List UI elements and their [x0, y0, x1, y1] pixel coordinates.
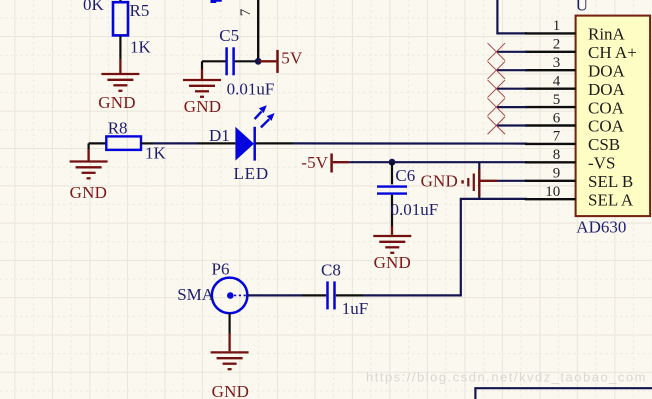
svg-text:-VS: -VS: [588, 154, 615, 173]
svg-text:C8: C8: [321, 261, 341, 280]
svg-text:GND: GND: [184, 97, 221, 116]
connector P6 SMA: [212, 278, 248, 314]
svg-text:SEL A: SEL A: [588, 190, 634, 209]
wire R8 to LED: [153, 142, 198, 144]
svg-text:GND: GND: [212, 382, 249, 399]
svg-text:U: U: [576, 0, 588, 15]
capacitor C5: [202, 47, 256, 75]
svg-text:AD630: AD630: [576, 218, 626, 237]
svg-text:4: 4: [553, 74, 561, 90]
ground symbol at IC pin 9 (rotated): [463, 169, 498, 197]
junction node at C6: [389, 159, 396, 166]
pin 6 COA: [525, 110, 625, 135]
pin 8 -VS: [525, 147, 615, 172]
svg-text:-5V: -5V: [301, 153, 329, 172]
ground symbol at R5: [101, 59, 139, 91]
IC U (AD630) body: [576, 16, 651, 217]
svg-text:7: 7: [238, 8, 254, 16]
svg-text:GND: GND: [421, 171, 458, 190]
LED D1: [198, 105, 293, 160]
wire stub pin 6: [497, 124, 527, 126]
svg-text:10: 10: [545, 184, 560, 200]
svg-text:DOA: DOA: [588, 80, 626, 99]
ground symbol at C6: [373, 226, 411, 253]
svg-text:7: 7: [553, 129, 561, 145]
wire stub pin 3: [497, 69, 527, 71]
svg-text:6: 6: [553, 110, 561, 126]
wire stub pin 5: [497, 106, 527, 108]
no-ERC marker pin 5: [488, 98, 506, 116]
svg-text:SMA: SMA: [177, 285, 215, 304]
svg-text:5: 5: [553, 92, 561, 108]
no-ERC marker pin 6: [488, 117, 506, 135]
svg-text:0.01uF: 0.01uF: [227, 79, 275, 98]
svg-text:R8: R8: [108, 119, 128, 138]
svg-text:GND: GND: [98, 93, 135, 112]
svg-text:1: 1: [553, 18, 561, 34]
junction node at C5 / 5V: [255, 58, 262, 65]
pin 7 CSB: [525, 129, 620, 154]
power port 5V: [260, 50, 278, 73]
svg-text:8: 8: [553, 147, 561, 163]
pin 7 of component above (vertical pin with number): [257, 0, 259, 61]
svg-text:1K: 1K: [130, 37, 152, 56]
svg-text:D1: D1: [209, 126, 230, 145]
ground symbol at C5: [183, 61, 221, 97]
pin 10 SEL A: [525, 184, 634, 209]
svg-text:RinA: RinA: [588, 25, 626, 44]
resistor R8: [89, 136, 153, 150]
wire strap pin 8 to pin 10: [478, 162, 480, 199]
no-ERC marker pin 2: [488, 43, 506, 61]
wire LED to IC pin 7 (CSB net): [293, 142, 527, 144]
resistor R5: [113, 0, 128, 59]
wire C8 to SEL A vertical: [363, 294, 462, 296]
capacitor C6: [377, 162, 407, 227]
wire stub pin 2: [497, 51, 527, 53]
svg-text:P6: P6: [212, 260, 230, 279]
wire IC pin 1: [497, 0, 527, 33]
svg-text:0.01uF: 0.01uF: [391, 200, 439, 219]
svg-text:9: 9: [553, 166, 561, 182]
capacitor C8: [302, 281, 363, 309]
svg-text:LED: LED: [234, 164, 269, 183]
wire IC pin 10 (SEL A net): [461, 199, 527, 296]
pin 2 CH A+: [525, 37, 637, 62]
svg-text:C5: C5: [219, 26, 239, 45]
no-ERC marker pin 4: [488, 80, 506, 98]
svg-text:1uF: 1uF: [342, 299, 368, 318]
no-ERC marker pin 3: [488, 61, 506, 78]
svg-text:https://blog.csdn.net/kvdz_tao: https://blog.csdn.net/kvdz_taobao_com: [366, 370, 647, 385]
svg-text:DOA: DOA: [588, 61, 626, 80]
pin 5 COA: [525, 92, 625, 117]
svg-text:SEL B: SEL B: [588, 172, 633, 191]
wire -5V to IC pin 8 (-VS net): [349, 161, 527, 163]
svg-text:C6: C6: [395, 166, 415, 185]
pin 3 DOA: [525, 55, 626, 80]
partial LED arrow fragment (component above, cut off): [211, 0, 222, 3]
svg-text:COA: COA: [588, 98, 625, 117]
svg-text:3: 3: [553, 55, 561, 71]
pin 1 RinA: [525, 18, 626, 43]
svg-text:0K: 0K: [83, 0, 105, 14]
svg-text:2: 2: [553, 37, 561, 53]
pin 4 DOA: [525, 74, 626, 99]
ground symbol at R8: [70, 143, 108, 178]
ground symbol at P6: [211, 313, 249, 369]
svg-text:1K: 1K: [145, 143, 167, 162]
svg-text:GND: GND: [70, 183, 107, 202]
svg-text:5V: 5V: [281, 48, 303, 67]
svg-text:GND: GND: [374, 253, 411, 272]
wire P6 to C8: [247, 294, 302, 296]
svg-text:CSB: CSB: [588, 135, 620, 154]
svg-text:CH A+: CH A+: [588, 43, 637, 62]
svg-text:COA: COA: [588, 117, 625, 136]
wire bottom-right (to component below): [475, 388, 652, 399]
pin 9 SEL B: [525, 166, 633, 191]
svg-text:R5: R5: [130, 1, 150, 20]
wire stub pin 4: [497, 88, 527, 90]
power port -5V: [332, 154, 350, 173]
wire pin 9 stub: [498, 180, 528, 182]
